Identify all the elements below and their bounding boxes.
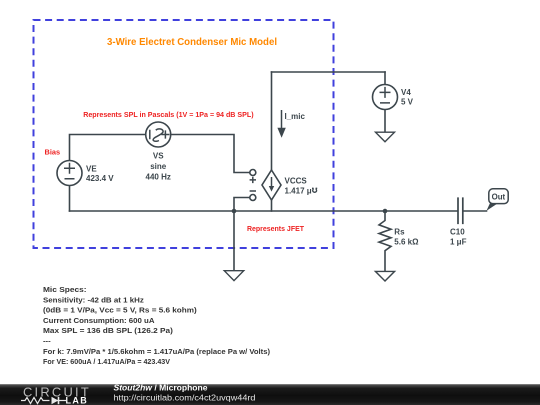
voltage source VS (sine) bbox=[146, 122, 171, 147]
svg-text:For VE: 600uA / 1.417uA/Pa = 4: For VE: 600uA / 1.417uA/Pa = 423.43V bbox=[43, 357, 171, 366]
resistor Rs bbox=[379, 211, 391, 271]
label C10 1uF bbox=[450, 228, 467, 247]
wire: VCCS top stem bbox=[271, 72, 273, 170]
svg-text:(0dB = 1 V/Pa, Vcc = 5 V, Rs =: (0dB = 1 V/Pa, Vcc = 5 V, Rs = 5.6 kohm) bbox=[43, 306, 197, 315]
wire: VCCS bottom stem bbox=[271, 200, 273, 211]
svg-text:sine: sine bbox=[150, 162, 167, 171]
svg-text:VCCS: VCCS bbox=[285, 177, 308, 186]
title: 3-Wire Electret Condenser Mic Model bbox=[107, 37, 277, 48]
svg-text:I_mic: I_mic bbox=[285, 112, 306, 121]
voltage source VE bbox=[57, 161, 82, 186]
footer title text bbox=[114, 384, 256, 403]
svg-text:423.4 V: 423.4 V bbox=[86, 174, 114, 183]
red note: Represents SPL in Pascals bbox=[83, 110, 254, 119]
svg-text:Sensitivity: -42 dB at 1 kHz: Sensitivity: -42 dB at 1 kHz bbox=[43, 295, 144, 304]
svg-text:Out: Out bbox=[492, 193, 506, 202]
svg-text:5.6 kΩ: 5.6 kΩ bbox=[394, 238, 419, 247]
svg-text:LAB: LAB bbox=[66, 396, 89, 405]
red note: Represents JFET bbox=[247, 224, 304, 233]
svg-text:3-Wire Electret Condenser Mic: 3-Wire Electret Condenser Mic Model bbox=[107, 37, 277, 48]
wire: bottom rail bbox=[70, 210, 458, 212]
wire: VE bottom bbox=[69, 186, 71, 212]
svg-text:Stout2hw / Microphone: Stout2hw / Microphone bbox=[114, 384, 209, 393]
CircuitLab logo bbox=[21, 385, 91, 405]
footer bar bbox=[0, 384, 540, 405]
svg-text:Bias: Bias bbox=[45, 148, 61, 157]
svg-text:Mic Specs:: Mic Specs: bbox=[43, 285, 87, 294]
label V4 5 V bbox=[401, 88, 414, 107]
capacitor C10 bbox=[458, 197, 463, 224]
ground (below V4) bbox=[376, 132, 395, 142]
svg-text:VS: VS bbox=[153, 151, 164, 160]
svg-text:---: --- bbox=[43, 337, 51, 346]
current source VCCS (diamond) bbox=[262, 170, 281, 200]
svg-text:Represents JFET: Represents JFET bbox=[247, 224, 304, 233]
enclosure dashed box bbox=[34, 20, 334, 248]
current annotation I_mic bbox=[277, 110, 305, 138]
output flag Out bbox=[487, 189, 509, 211]
svg-text:For k: 7.9mV/Pa * 1/5.6kohm =: For k: 7.9mV/Pa * 1/5.6kohm = 1.417uA/Pa… bbox=[43, 347, 270, 356]
svg-text:Max SPL = 136 dB SPL (126.2 Pa: Max SPL = 136 dB SPL (126.2 Pa) bbox=[43, 326, 173, 335]
svg-text:1 μF: 1 μF bbox=[450, 238, 467, 247]
svg-text:1.417 μ: 1.417 μ bbox=[285, 187, 312, 196]
svg-text:Represents SPL in Pascals (1V: Represents SPL in Pascals (1V = 1Pa = 94… bbox=[83, 110, 254, 119]
svg-text:5 V: 5 V bbox=[401, 97, 414, 106]
svg-text:V4: V4 bbox=[401, 88, 411, 97]
wire: VS to VCCS plus terminal bbox=[171, 135, 250, 173]
svg-text:Current Consumption: 600 uA: Current Consumption: 600 uA bbox=[43, 316, 155, 325]
red note: Bias bbox=[45, 148, 61, 157]
svg-text:http://circuitlab.com/c4ct2uvq: http://circuitlab.com/c4ct2uvqw44rd bbox=[114, 393, 256, 402]
wire: VE top to VS bbox=[70, 135, 146, 161]
ground (below Rs) bbox=[375, 271, 394, 281]
VCCS control - mark bbox=[250, 190, 256, 192]
wire: bottom rail right of C10 bbox=[464, 210, 487, 212]
wire: V4 top stem bbox=[384, 72, 386, 85]
wire: VCCS minus terminal to bottom rail bbox=[234, 198, 250, 212]
label VE 423.4 V bbox=[86, 165, 114, 183]
label VCCS 1.417 mho bbox=[285, 177, 318, 196]
label Rs 5.6 kOhm bbox=[394, 228, 419, 247]
ground (below node A) bbox=[224, 271, 243, 281]
voltage source V4 bbox=[373, 85, 398, 110]
node B junction dot bbox=[383, 209, 388, 214]
label VS sine 440 Hz bbox=[146, 151, 171, 181]
svg-text:440 Hz: 440 Hz bbox=[146, 172, 171, 181]
note block: Mic Specs bbox=[43, 285, 270, 366]
wire: top rail bbox=[272, 71, 386, 73]
wire: V4 bottom stem bbox=[384, 110, 386, 133]
svg-text:VE: VE bbox=[86, 165, 97, 174]
node A junction dot bbox=[232, 209, 237, 214]
svg-text:Rs: Rs bbox=[394, 228, 405, 237]
svg-text:C10: C10 bbox=[450, 228, 465, 237]
VCCS control terminal - (open circle) bbox=[250, 195, 256, 201]
VCCS control + mark bbox=[250, 177, 256, 183]
wire: ground stem below junction A bbox=[233, 211, 235, 270]
VCCS control terminal + (open circle) bbox=[250, 170, 256, 176]
